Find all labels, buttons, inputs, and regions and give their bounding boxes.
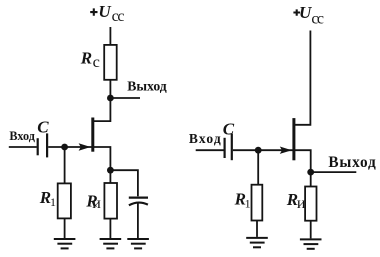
capacitor C left plate (left circuit) — [37, 138, 39, 155]
wire: Rи to ground (left) — [109, 219, 111, 238]
wire: gate lead with source lead (left) — [65, 147, 111, 170]
wire: output lead (right) — [311, 171, 357, 173]
resistor R1 (left) — [58, 183, 71, 218]
wire: Rc to output node (left) — [109, 80, 111, 98]
capacitor Cs curved plate — [129, 203, 148, 206]
wire: capacitor to gate node (right) — [233, 149, 258, 151]
svg-text:и: и — [92, 195, 101, 212]
svg-text:C: C — [37, 118, 49, 137]
svg-text:с: с — [93, 52, 100, 71]
supply label +Ucc (right) — [293, 3, 324, 27]
wire: gate node to R1 (right) — [257, 150, 259, 185]
wire: bypass capacitor to ground — [137, 203, 139, 238]
svg-text:Вход: Вход — [9, 129, 35, 143]
wire: capacitor to gate node (left) — [48, 146, 64, 148]
svg-text:1: 1 — [245, 197, 251, 211]
node: right gate junction — [255, 147, 262, 154]
ground (bypass capacitor) — [127, 239, 149, 248]
svg-text:1: 1 — [50, 195, 56, 209]
wire: gate node to R1 (left) — [64, 147, 66, 183]
wire: R1 to ground (right) — [256, 221, 258, 237]
node: right source junction — [307, 169, 314, 176]
label R1 (right) — [234, 190, 251, 211]
svg-text:Выход: Выход — [328, 154, 376, 171]
ground (left Rи) — [100, 239, 122, 248]
capacitor C left plate (right circuit) — [224, 138, 226, 158]
label Rи (right) — [286, 190, 306, 212]
ground (left R1) — [54, 239, 76, 248]
ground (right R1) — [246, 238, 268, 247]
svg-text:и: и — [297, 195, 306, 212]
supply label +Ucc (left) — [90, 2, 124, 25]
transistor VT2 gate arrow — [280, 147, 292, 154]
resistor Rи (right) — [305, 187, 316, 221]
wire: supply to drain (right) — [294, 31, 311, 125]
svg-text:R: R — [80, 48, 92, 67]
label R1 (left) — [39, 188, 56, 209]
svg-text:Вход: Вход — [189, 131, 222, 146]
ground (right Rи) — [300, 239, 322, 248]
node: left output junction — [107, 95, 114, 102]
svg-text:сс: сс — [311, 10, 324, 27]
resistor R1 (right) — [252, 185, 263, 221]
wire: supply to Rc (left) — [109, 27, 111, 45]
svg-text:U: U — [98, 2, 111, 21]
wire: source node to Rи (right) — [310, 172, 312, 186]
transistor VT2 channel bar — [292, 118, 295, 160]
wire: Rи to ground (right) — [310, 221, 312, 239]
label Rи (left) — [85, 191, 101, 212]
wire: source node to bypass capacitor — [110, 170, 137, 196]
resistor Rи (left) — [104, 183, 117, 219]
wire: source node to Rи (left) — [109, 170, 111, 183]
svg-text:Выход: Выход — [127, 79, 167, 94]
transistor VT1 gate arrow — [79, 143, 91, 150]
wire: output lead (left) — [110, 97, 140, 99]
wire: input lead (left) — [9, 146, 37, 148]
capacitor C right plate (right circuit) — [231, 134, 233, 160]
svg-text:C: C — [223, 120, 235, 139]
node: left gate junction — [61, 144, 68, 151]
wire: drain riser (left) — [93, 98, 111, 121]
capacitor Cs top plate — [129, 197, 148, 199]
svg-text:сс: сс — [112, 8, 125, 25]
capacitor C right plate (left circuit) — [46, 133, 48, 157]
wire: gate and source lead (right) — [258, 150, 311, 172]
wire: input lead (right) — [196, 149, 224, 151]
label Rc — [80, 48, 100, 71]
resistor Rc — [104, 45, 117, 80]
transistor VT1 channel bar — [91, 118, 94, 152]
node: left source junction — [107, 167, 114, 174]
svg-text:U: U — [299, 3, 312, 22]
wire: R1 to ground (left) — [64, 218, 66, 238]
